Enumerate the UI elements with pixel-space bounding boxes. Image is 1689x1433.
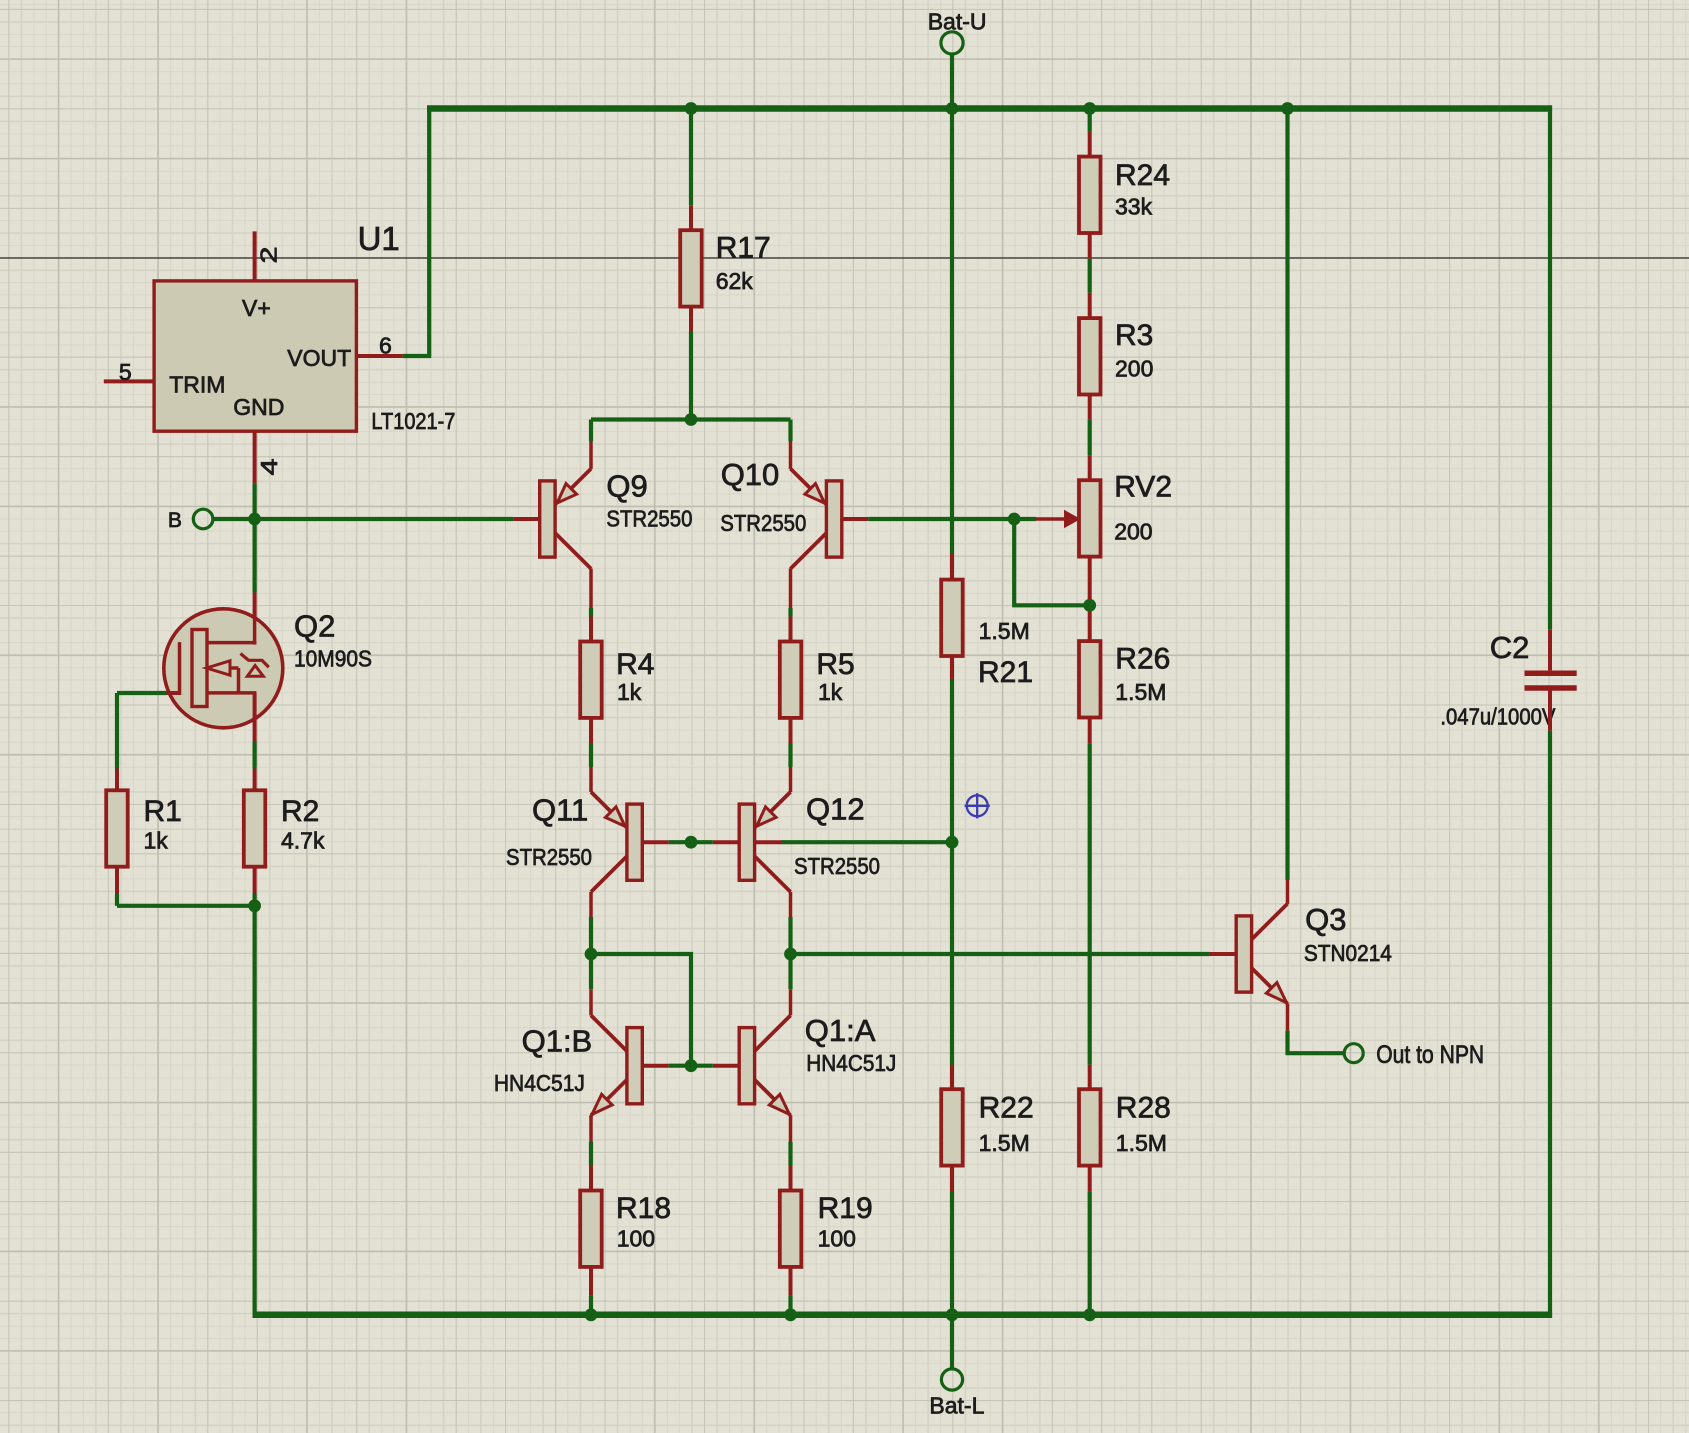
resistor R2: [244, 790, 265, 866]
wire R28 to bottom rail: [1088, 1166, 1092, 1191]
wire bottom rail: [253, 1312, 1553, 1319]
svg-text:Q3: Q3: [1305, 902, 1346, 937]
transistor Q12 STR2550: [739, 804, 754, 880]
wire R17 column: [689, 109, 693, 206]
sheet divider line: [0, 257, 1689, 259]
wire Q12 collector down: [789, 892, 793, 917]
potentiometer RV2: [1079, 480, 1101, 556]
wire Q1:B emitter to R18: [589, 1115, 593, 1142]
resistor R28: [1079, 1089, 1101, 1165]
svg-text:U1: U1: [358, 220, 400, 257]
svg-text:R22: R22: [979, 1092, 1034, 1125]
transistor Q10 STR2550: [826, 481, 841, 557]
svg-text:100: 100: [617, 1225, 655, 1251]
svg-text:Out to NPN: Out to NPN: [1376, 1041, 1484, 1069]
wire R3-RV2: [1088, 395, 1092, 420]
svg-text:VOUT: VOUT: [287, 345, 351, 371]
wire tap down: [1014, 519, 1089, 605]
svg-text:R3: R3: [1115, 319, 1153, 352]
junction Q3 collector top rail: [1281, 102, 1294, 115]
junction R17 top rail: [685, 102, 698, 115]
wire R4 to Q11 emitter: [589, 718, 593, 743]
wire Q9 collector to R4: [589, 569, 593, 609]
wire B junction down to Q2 drain: [253, 519, 257, 593]
svg-text:62k: 62k: [716, 268, 754, 294]
U1 pin 6 (VOUT): [356, 354, 402, 358]
junction R18 bottom: [585, 1308, 598, 1321]
wire gate riser to R1: [115, 693, 119, 769]
wire C2 top: [1548, 106, 1552, 630]
svg-text:10M90S: 10M90S: [294, 646, 372, 672]
wire R24-R3: [1088, 233, 1092, 259]
junction right top rail: [1083, 102, 1096, 115]
svg-text:100: 100: [818, 1225, 856, 1251]
wire R18 to bottom rail: [589, 1267, 593, 1296]
svg-text:R26: R26: [1115, 642, 1170, 675]
junction R1/R2: [248, 899, 261, 912]
resistor R18: [580, 1191, 602, 1267]
Q2 source lead: [253, 693, 257, 741]
svg-text:R4: R4: [616, 648, 654, 681]
junction R19 bottom: [784, 1308, 797, 1321]
wire Q10 collector to R5: [789, 569, 793, 609]
wire Q10 base to RV2 tap: [868, 517, 1014, 521]
U1 pin 2 (V+): [253, 231, 257, 281]
svg-text:STR2550: STR2550: [506, 844, 592, 870]
svg-text:B: B: [168, 509, 182, 532]
wire Q9 emitter riser: [589, 420, 593, 442]
transistor Q9 STR2550: [540, 481, 555, 557]
svg-text:1k: 1k: [144, 828, 169, 854]
svg-text:R24: R24: [1115, 159, 1170, 192]
Q2 body diode triangle: [247, 666, 263, 677]
svg-text:HN4C51J: HN4C51J: [806, 1050, 896, 1076]
svg-text:Q12: Q12: [806, 792, 865, 827]
origin marker crosshair: [965, 793, 990, 818]
junction B/pin4: [248, 513, 261, 526]
junction tap: [1083, 599, 1096, 612]
wire Q3 base line: [791, 952, 1210, 956]
svg-text:R19: R19: [818, 1192, 873, 1225]
transistor Q11 STR2550: [627, 804, 642, 880]
svg-text:R21: R21: [978, 656, 1033, 689]
terminal Bat-L: [941, 1369, 962, 1390]
wire pin4 to B junction: [253, 484, 257, 519]
junction base link: [685, 836, 698, 849]
svg-text:2: 2: [255, 247, 281, 264]
svg-text:RV2: RV2: [1114, 470, 1172, 503]
svg-text:R18: R18: [616, 1192, 671, 1225]
svg-text:TRIM: TRIM: [169, 372, 225, 398]
IC U1 LT1021-7 body: [154, 281, 356, 431]
Q2 drain bar: [207, 641, 256, 645]
wire cross-couple left: [591, 954, 691, 1066]
wire B rail: [213, 517, 513, 521]
svg-text:R2: R2: [281, 795, 319, 828]
wire Q11 collector down: [589, 892, 593, 917]
RV2 wiper arrow: [1014, 517, 1036, 521]
wire R26 down to R28: [1088, 718, 1092, 743]
svg-text:STR2550: STR2550: [794, 853, 880, 879]
svg-text:LT1021-7: LT1021-7: [371, 408, 455, 434]
svg-text:200: 200: [1115, 356, 1153, 382]
svg-text:1k: 1k: [617, 679, 642, 705]
svg-text:200: 200: [1114, 518, 1152, 544]
junction emitter rail: [685, 413, 698, 426]
resistor R19: [780, 1191, 802, 1267]
resistor R2 pins: [253, 741, 257, 769]
transistor Q1:B HN4C51J: [627, 1028, 642, 1104]
wire Q1 base link: [669, 1064, 713, 1068]
resistor R22: [941, 1089, 963, 1165]
svg-text:Q1:B: Q1:B: [522, 1024, 593, 1059]
svg-text:.047u/1000V: .047u/1000V: [1440, 704, 1556, 730]
svg-text:1.5M: 1.5M: [1116, 1130, 1167, 1156]
svg-text:V+: V+: [242, 295, 271, 321]
svg-text:Q11: Q11: [532, 793, 588, 828]
resistor R21 pins: [950, 554, 954, 580]
resistor R1: [106, 790, 128, 866]
wire VOUT riser: [427, 106, 431, 357]
svg-text:GND: GND: [233, 394, 284, 420]
transistor Q2 10M90S circle: [253, 593, 257, 647]
resistor R22 pins: [950, 1065, 954, 1090]
resistor R1 pins: [115, 868, 119, 894]
wire Q12 base to mid rail: [755, 840, 781, 844]
wire R2 bottom to bottom rail: [253, 894, 257, 1317]
svg-text:R5: R5: [816, 648, 854, 681]
svg-text:R28: R28: [1116, 1092, 1171, 1125]
svg-text:Q1:A: Q1:A: [805, 1013, 876, 1048]
junction mid rail base: [946, 836, 959, 849]
wire Q10 emitter riser: [788, 420, 792, 442]
svg-text:R17: R17: [716, 231, 771, 264]
svg-text:4.7k: 4.7k: [281, 828, 325, 854]
svg-text:1k: 1k: [818, 679, 843, 705]
svg-text:Q9: Q9: [606, 469, 647, 504]
svg-text:Bat-L: Bat-L: [929, 1393, 984, 1419]
transistor Q3 STN0214: [1236, 916, 1251, 992]
svg-text:33k: 33k: [1115, 194, 1153, 220]
Q2 body diode zener bar: [241, 654, 269, 668]
U1 pin 4 (GND): [253, 431, 257, 484]
junction Q12 collector node: [784, 948, 797, 961]
svg-text:C2: C2: [1490, 630, 1530, 665]
resistor R24: [1079, 157, 1101, 233]
svg-text:STR2550: STR2550: [720, 510, 806, 536]
junction Q11 collector node: [585, 948, 598, 961]
svg-text:5: 5: [119, 359, 132, 385]
capacitor C2 plates: [1525, 670, 1577, 676]
svg-text:R1: R1: [144, 795, 182, 828]
resistor R5: [780, 642, 802, 718]
wire RV2-R26: [1088, 556, 1092, 641]
svg-text:1.5M: 1.5M: [979, 1130, 1030, 1156]
wire mid rail: [950, 54, 954, 1369]
svg-text:Q10: Q10: [721, 457, 780, 492]
terminal Bat-U: [941, 32, 963, 54]
wire Q1:A emitter to R19: [789, 1115, 793, 1142]
junction mid bottom rail: [946, 1308, 959, 1321]
wire Q3 emitter to output: [1286, 1004, 1290, 1031]
wire Q11-Q12 base link: [669, 840, 713, 844]
junction mid top rail: [946, 102, 959, 115]
svg-text:4: 4: [256, 458, 282, 475]
resistor R26: [1079, 641, 1101, 717]
resistor R17: [680, 230, 702, 306]
wire right rail top: [1088, 109, 1092, 132]
terminal Out to NPN: [1344, 1044, 1363, 1063]
wire C2 bottom: [1548, 691, 1552, 731]
resistor R4: [580, 642, 602, 718]
svg-text:STN0214: STN0214: [1304, 940, 1392, 966]
Q2 source bar: [207, 691, 256, 695]
junction RV2 tap: [1008, 513, 1021, 526]
svg-text:STR2550: STR2550: [606, 506, 692, 532]
Q2 drain lead: [253, 611, 257, 645]
junction R28 bottom: [1083, 1308, 1096, 1321]
resistor R21: [941, 580, 963, 656]
junction Q1 base link: [685, 1059, 698, 1072]
svg-text:1.5M: 1.5M: [979, 618, 1030, 644]
wire R19 to bottom rail: [789, 1267, 793, 1296]
svg-text:1.5M: 1.5M: [1115, 679, 1166, 705]
svg-text:6: 6: [379, 333, 392, 359]
R17 bottom wire: [689, 307, 693, 332]
wire emitter rail: [591, 417, 791, 421]
svg-text:Q2: Q2: [294, 609, 335, 644]
Q2 gate plate: [192, 630, 207, 707]
svg-text:HN4C51J: HN4C51J: [494, 1070, 585, 1096]
transistor Q1:A HN4C51J: [739, 1028, 754, 1104]
resistor R3: [1079, 318, 1101, 394]
svg-text:Bat-U: Bat-U: [928, 8, 987, 34]
wire R5 to Q12 emitter: [789, 718, 793, 743]
Q2 gate wire: [166, 691, 181, 695]
wire R1 bottom to R2 junction: [117, 904, 255, 908]
wire Q3 collector riser: [1286, 880, 1290, 904]
U1 pin 5 (TRIM): [104, 379, 154, 383]
terminal B: [193, 509, 213, 529]
Q2 gate lead line: [178, 642, 182, 695]
wire top supply rail: [427, 105, 1552, 112]
Q2 substrate arrow: [207, 661, 231, 675]
